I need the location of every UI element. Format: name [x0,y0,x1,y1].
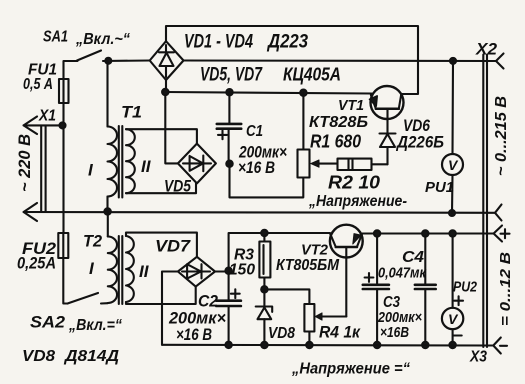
svg-text:X1: X1 [38,108,56,125]
transformer T1 [108,61,135,212]
label ~0...215V [493,96,510,176]
label VD5 [164,177,191,196]
svg-text:VT2: VT2 [301,242,329,259]
wire plus bus VD1-4 bottom to VT1 emitter [165,80,372,94]
svg-text:×16 В: ×16 В [238,158,275,177]
svg-text:„Вкл.=“: „Вкл.=“ [68,317,122,334]
terminal X1 live arrow [24,117,63,135]
svg-text:II: II [141,157,152,176]
node VD8 minus bus [261,342,267,348]
svg-text:SA1: SA1 [43,29,68,46]
label C4 value [378,265,427,282]
label KT828B [309,114,368,131]
svg-text:V: V [448,157,459,173]
label C4 [402,249,424,266]
svg-text:КТ805БМ: КТ805БМ [276,257,340,274]
svg-text:Д223: Д223 [266,32,308,53]
label C2 value [168,309,226,328]
resistor R2 [338,159,388,170]
label VT1 [338,97,364,114]
label PU1 V [448,157,459,173]
bridge rectifier VD7 [178,257,215,287]
node C3 top [374,230,380,236]
svg-text:V: V [448,311,459,327]
node SA1/T1 junction [105,58,111,64]
node C4 bottom [422,342,428,348]
label C3 value [377,309,422,326]
wire ac output bus to X2 [184,54,504,69]
node C4 top [422,230,428,236]
wire VD7 right node [215,270,229,272]
diode VD6 [380,134,396,165]
label R1 680 [310,132,361,152]
label VD8 note [22,348,55,365]
svg-text:C4: C4 [402,249,424,266]
wire plus bus to VD5 left [165,92,178,163]
wire plus12 bus right segment to arrow [362,226,510,242]
svg-text:×16В: ×16В [380,324,409,341]
transformer T2 [108,212,134,305]
label T2 winding I [89,259,95,278]
svg-text:T1: T1 [121,103,142,122]
label D226B [395,133,444,152]
wire T1-II bottom to VD5 ac2 [126,183,196,193]
svg-text:КТ828Б: КТ828Б [309,114,368,131]
label VD5 VD7 [200,65,263,86]
label 0,25A [17,254,56,273]
label VT2 [301,242,329,259]
svg-text:КЦ405А: КЦ405А [283,64,341,85]
label C2 voltage [176,325,212,344]
node PU1 neutral junction [449,210,455,216]
svg-text:„Вкл.~“: „Вкл.~“ [75,31,130,48]
node T1/T2 primary neutral junction [104,208,110,214]
voltmeter PU1 [442,61,463,213]
label 0,5A [23,76,53,93]
switch SA2 [68,293,108,304]
label Napryazhenie~ [308,193,407,210]
svg-text:VD8: VD8 [22,348,55,365]
capacitor C2 [216,272,241,346]
label X1 [38,108,56,125]
label T2 [83,232,103,251]
label VD6 [403,117,431,135]
bridge rectifier VD5 [178,144,216,184]
wire T2-II bottom to VD7 ac2 [126,287,196,304]
wire T1-II top to VD5 ac1 [126,129,197,143]
label X2 [475,40,498,59]
svg-text:I: I [88,161,94,180]
node C2 minus bus [225,342,231,348]
label FU2 [22,239,57,258]
label FU1 [28,62,57,79]
svg-text:VT1: VT1 [338,97,364,114]
capacitor C4 [415,234,436,346]
bridge rectifier VD1-VD4 [150,41,184,80]
svg-text:VD5, VD7: VD5, VD7 [200,65,263,86]
resistor R3 [259,233,270,289]
label D814D [63,348,120,365]
node bus/R1 [300,90,306,96]
svg-text:„Напряжение =“: „Напряжение =“ [291,361,410,378]
wire minus bus to X3 [162,338,507,354]
node bus/VD5 branch [162,89,168,95]
label PU2 V [448,311,459,327]
svg-text:X3: X3 [469,349,487,366]
label PU2 [453,279,478,296]
potentiometer R1 [298,93,337,178]
label KT805BM [276,257,340,274]
potentiometer R4 [304,304,346,345]
node PU2 bottom [449,342,455,348]
wire T2-II top to VD7 ac1 [126,233,197,257]
svg-text:×16 В: ×16 В [176,325,212,344]
svg-text:~ 0...215 В: ~ 0...215 В [493,96,510,176]
label T1 winding I [88,161,94,180]
zener diode VD8 [256,289,273,345]
svg-text:I: I [89,259,95,278]
label SA1 [43,29,68,46]
voltmeter PU2 [442,234,463,346]
label R3 [234,247,254,264]
wire top bus from VD1-VD4 plus to VT1 collector [166,26,418,94]
svg-text:150: 150 [229,262,255,279]
capacitor C3 [363,234,389,346]
svg-text:„Напряжение-: „Напряжение- [308,193,407,210]
svg-text:PU1: PU1 [425,179,454,196]
svg-text:VD8: VD8 [268,325,295,342]
fuse FU2 [58,233,68,304]
label Napryazhenie= [291,361,410,378]
svg-text:Д226Б: Д226Б [395,133,444,152]
transistor VT2 [330,225,363,317]
wire neutral bus [24,203,502,221]
node R3 top [261,230,267,236]
node PU1 top branch [450,58,456,64]
capacitor C1 [217,92,241,164]
label T1 winding II [141,157,152,176]
transistor VT1 [370,86,404,134]
label PU1 [425,179,454,196]
label VD1-VD4 [184,32,253,53]
svg-text:~ 220 В: ~ 220 В [15,134,34,192]
label =0...12V [497,252,514,326]
label Vkl= [68,317,122,334]
label C1 [246,123,263,140]
connector X1 double line [41,127,45,212]
svg-text:Д814Д: Д814Д [63,348,120,365]
label R2 10 [328,173,380,193]
svg-text:T2: T2 [83,232,103,251]
node bus/C1 [226,89,232,95]
svg-text:SA2: SA2 [30,313,66,332]
switch SA1 [64,51,150,80]
node R4 minus bus [306,342,312,348]
node VD7/C2/bus [225,268,231,274]
node C3 bottom [374,342,380,348]
label KC405A [283,64,341,85]
node PU2 top [449,230,455,236]
node X1 junction [60,122,66,128]
svg-text:R4 1к: R4 1к [319,323,361,342]
svg-text:VD1 - VD4: VD1 - VD4 [184,32,253,53]
label SA2 [30,313,66,332]
svg-text:II: II [139,262,150,281]
label T1 [121,103,142,122]
label Vkl~ [75,31,130,48]
wire R3 node to R4 top [264,289,309,304]
label ~220V [15,134,34,192]
label C3 [383,294,400,311]
label VD8 [268,325,295,342]
wire VD7 left to minus bus [162,272,178,345]
node VD5 right / C1 minus [226,161,232,167]
label X3 [469,349,487,366]
label C1 voltage [238,158,275,177]
svg-text:R1 680: R1 680 [310,132,361,152]
label VD7 [155,237,192,256]
label T2 winding II [139,262,150,281]
label 150 [229,262,255,279]
svg-text:0,047мк: 0,047мк [378,265,427,282]
wire plus12 bus left segment [229,233,330,272]
svg-text:PU2: PU2 [453,279,478,296]
wire VD5 right node down to R1 bottom [230,164,304,198]
label C1 value [238,143,287,162]
svg-text:= 0...12 В: = 0...12 В [497,252,514,326]
label D223 [266,32,308,53]
svg-text:C1: C1 [246,123,263,140]
node R3 bottom [261,286,267,292]
svg-text:0,25А: 0,25А [17,254,56,273]
label R4 1k [319,323,361,342]
label C3 voltage [380,324,409,341]
svg-text:0,5 А: 0,5 А [23,76,53,93]
svg-text:VD7: VD7 [155,237,192,256]
svg-text:VD5: VD5 [164,177,191,196]
connector X2-X3 double line [483,55,487,348]
svg-text:R2 10: R2 10 [328,173,380,193]
fuse FU1 [59,79,69,233]
label C2 [198,292,218,311]
